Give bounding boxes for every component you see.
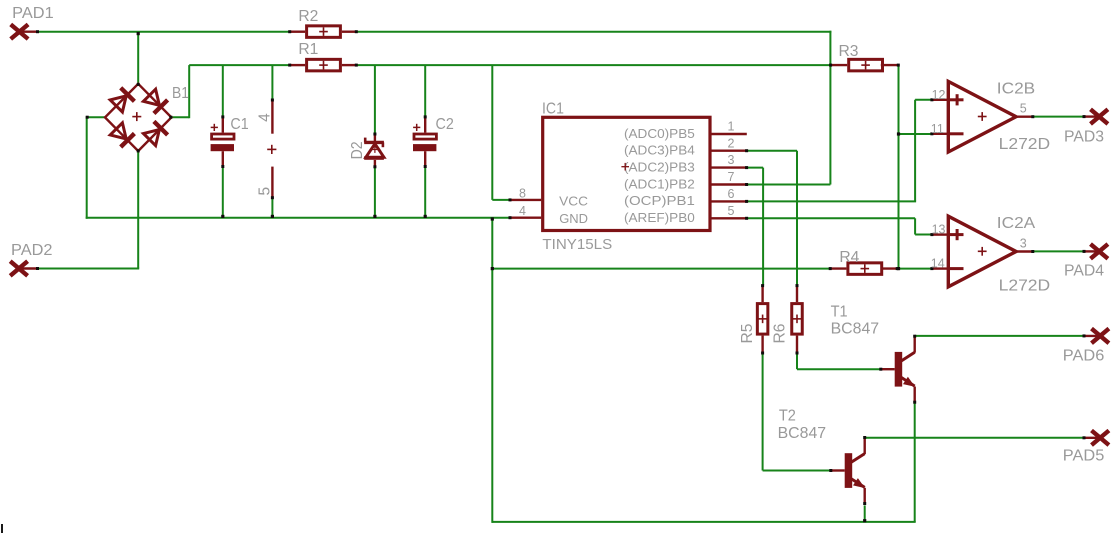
- wire T2 emitter down: [864, 505, 866, 522]
- pad PAD5: [1063, 431, 1109, 465]
- transistor T1: [831, 304, 917, 404]
- wire bridge AC2 down to PAD2 row: [137, 152, 139, 269]
- svg-text:D2: D2: [349, 141, 366, 159]
- wire GND bus: [86, 217, 510, 219]
- wire R5 bottom vertical: [762, 353, 764, 470]
- wire VCC vertical from regulated node: [491, 65, 493, 200]
- wire to IC2B pin 12: [915, 99, 932, 101]
- wire R4 right to IC2A pin 14: [897, 268, 930, 270]
- wire IC1 pin 3 PB3: [747, 167, 763, 169]
- svg-text:12: 12: [932, 88, 946, 102]
- wire bridge minus to GND corner: [87, 116, 106, 118]
- wire C1 bottom to GND bus: [222, 167, 224, 218]
- svg-text:6: 6: [728, 187, 735, 201]
- wire VCC horizontal to IC1 pin 8: [492, 199, 509, 201]
- pad PAD1: [11, 5, 54, 39]
- svg-text:R2: R2: [298, 8, 318, 25]
- svg-text:PAD6: PAD6: [1063, 348, 1105, 365]
- op-amp IC2A: [930, 215, 1050, 294]
- svg-text:PAD4: PAD4: [1064, 263, 1104, 280]
- svg-text:L272D: L272D: [999, 278, 1051, 295]
- junction GND bus / C2: [424, 215, 427, 218]
- wire B1 pin4 top: [271, 65, 273, 99]
- junction feedback / pin11: [897, 132, 900, 135]
- wire to T1 base: [797, 368, 881, 370]
- svg-text:3: 3: [1020, 236, 1027, 250]
- wire D2 top: [374, 65, 376, 133]
- resistor R3: [829, 43, 900, 71]
- svg-text:(ADC0)PB5: (ADC0)PB5: [624, 127, 695, 141]
- svg-text:VCC: VCC: [559, 194, 588, 209]
- wire PB3 vertical to R5: [762, 168, 764, 286]
- wire C2 top: [424, 65, 426, 117]
- junction PAD1 net / bridge AC1: [137, 32, 140, 35]
- wire IC1 pin 6 PB1: [747, 200, 916, 202]
- wire bridge AC1 up to PAD1 net: [137, 32, 139, 84]
- svg-text:R6: R6: [772, 324, 789, 344]
- svg-text:(ADC1)PB2: (ADC1)PB2: [624, 177, 695, 191]
- svg-text:PAD2: PAD2: [11, 242, 53, 259]
- wire D2 bottom to GND bus: [374, 167, 376, 217]
- svg-text:R5: R5: [739, 324, 756, 344]
- capacitor C1: [211, 115, 249, 168]
- svg-text:PAD3: PAD3: [1064, 129, 1104, 146]
- svg-text:C2: C2: [436, 116, 454, 133]
- svg-text:(ADC2)PB3: (ADC2)PB3: [624, 160, 695, 174]
- pad PAD2: [10, 242, 52, 276]
- svg-text:T1: T1: [831, 304, 848, 321]
- op-amp IC2B: [930, 81, 1050, 154]
- svg-text:13: 13: [932, 223, 946, 237]
- frame mark: [1, 524, 3, 533]
- wire to IC2B pin 11: [899, 133, 932, 135]
- junction GND spur: [491, 267, 494, 270]
- wire to IC2A pin 13: [915, 234, 931, 236]
- wire rectified node row: [189, 64, 289, 66]
- resistor R4: [829, 249, 899, 274]
- wire R2 to corner above R3: [357, 31, 832, 33]
- svg-text:R3: R3: [839, 43, 859, 60]
- svg-text:(AREF)PB0: (AREF)PB0: [624, 211, 695, 225]
- wire GND left vertical: [86, 116, 88, 219]
- wire IC1 pin 7 PB2: [747, 184, 831, 186]
- wire to T2 base: [763, 470, 831, 472]
- transistor T2: [778, 408, 867, 506]
- svg-text:PAD1: PAD1: [12, 5, 54, 22]
- svg-text:(ADC3)PB4: (ADC3)PB4: [624, 144, 695, 158]
- capacitor C2: [413, 115, 454, 168]
- B1 pin 4: [257, 99, 274, 134]
- svg-text:B1: B1: [172, 85, 189, 102]
- junction GND vertical / bus: [491, 217, 494, 220]
- resistor R1: [288, 41, 358, 71]
- svg-text:1: 1: [728, 120, 735, 134]
- wire PAD1 to R2: [39, 31, 290, 33]
- B1 polarity mark: [267, 145, 276, 154]
- junction GND bus / B1 pin5: [271, 215, 274, 218]
- svg-text:C1: C1: [230, 116, 248, 133]
- bridge rectifier B1: [86, 83, 189, 152]
- junction GND bus / C1: [221, 215, 224, 218]
- svg-text:GND: GND: [559, 211, 588, 226]
- wire GND spur to R4 left: [492, 268, 830, 270]
- wire R6 bottom vertical: [796, 353, 798, 369]
- svg-text:BC847: BC847: [831, 321, 880, 338]
- svg-text:3: 3: [728, 153, 735, 167]
- junction bottom bus / T2 emitter: [863, 519, 866, 522]
- resistor R2: [288, 8, 358, 37]
- wire T2 collector to PAD5: [865, 437, 1084, 439]
- wire PB0 jog: [914, 218, 916, 234]
- svg-text:7: 7: [728, 170, 735, 184]
- wire PB1 riser: [914, 100, 916, 202]
- svg-text:L272D: L272D: [999, 136, 1051, 153]
- wire PAD2 horizontal: [39, 268, 140, 270]
- svg-text:T2: T2: [779, 408, 796, 425]
- svg-text:11: 11: [931, 122, 944, 136]
- svg-text:4: 4: [519, 204, 526, 218]
- wire R3 right vertical feedback: [898, 65, 900, 270]
- svg-text:R4: R4: [839, 249, 859, 266]
- wire vertical R2 line down to R3/PB2 node: [829, 31, 831, 185]
- svg-text:8: 8: [519, 186, 526, 200]
- svg-text:14: 14: [931, 257, 945, 271]
- svg-text:PAD5: PAD5: [1063, 448, 1105, 465]
- svg-text:(OCP)PB1: (OCP)PB1: [624, 194, 695, 208]
- wire vertical up to R1 row: [188, 65, 190, 118]
- wire PB4 vertical to R6: [796, 151, 798, 286]
- svg-text:5: 5: [1020, 102, 1027, 116]
- svg-text:R1: R1: [298, 41, 318, 58]
- svg-text:IC2B: IC2B: [997, 81, 1035, 98]
- svg-text:IC1: IC1: [542, 101, 564, 118]
- pad PAD3: [1064, 109, 1108, 145]
- svg-text:TINY15LS: TINY15LS: [542, 237, 612, 253]
- svg-text:5: 5: [257, 187, 274, 196]
- wire T1 collector to PAD6: [915, 335, 1084, 337]
- junction GND bus / D2: [373, 215, 376, 218]
- wire bridge plus corner to R1 node: [171, 116, 189, 118]
- pad PAD6: [1063, 329, 1109, 365]
- svg-text:BC847: BC847: [778, 425, 827, 442]
- wire C1 top: [222, 65, 224, 117]
- wire B1 pin5 bottom to GND bus: [271, 198, 273, 218]
- svg-text:5: 5: [728, 204, 735, 218]
- wire IC1 pin 2 PB4: [747, 150, 797, 152]
- wire IC2B output to PAD3: [1033, 116, 1084, 118]
- wire GND vertical down left side: [491, 218, 493, 523]
- wire bottom GND bus: [492, 521, 915, 523]
- svg-text:2: 2: [728, 136, 735, 150]
- resistor R6: [772, 284, 803, 354]
- B1 pin 5: [257, 167, 274, 200]
- wire IC2A output to PAD4: [1033, 250, 1084, 252]
- pad PAD4: [1064, 244, 1108, 279]
- svg-text:IC2A: IC2A: [997, 215, 1036, 232]
- zener diode D2: [349, 133, 384, 169]
- wire C2 bottom to GND bus: [424, 167, 426, 218]
- resistor R5: [739, 284, 768, 354]
- wire IC1 pin 5 PB0: [747, 217, 915, 219]
- svg-text:4: 4: [257, 113, 274, 122]
- wire regulated node row R1 to R3: [357, 64, 831, 66]
- wire T1 emitter down: [914, 403, 916, 522]
- junction feedback / R4 right: [897, 267, 900, 270]
- IC U1 TINY15LS: [509, 101, 749, 254]
